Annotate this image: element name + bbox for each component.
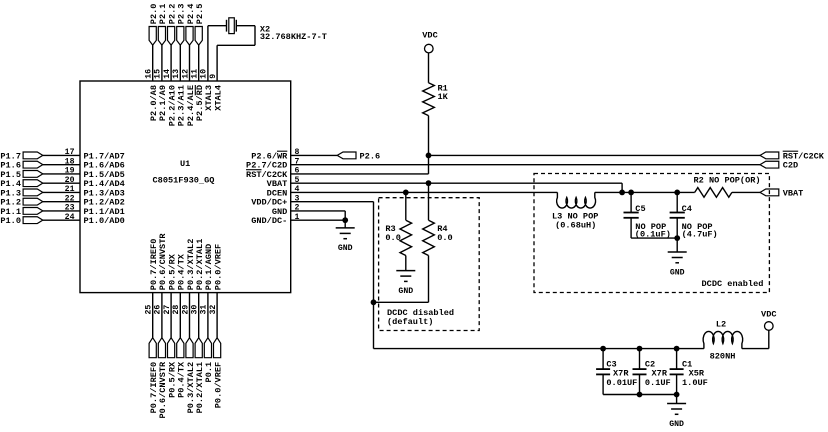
wire crystal right horizontal <box>236 25 255 27</box>
overline on RST of net label <box>783 150 798 152</box>
junction C4/C5 bottom <box>674 235 680 241</box>
svg-text:(0.68uH): (0.68uH) <box>555 220 596 230</box>
port flag P1.5 <box>23 171 43 178</box>
IC U1 C8051F930_GQ body <box>80 81 291 293</box>
capacitor C5 <box>624 212 639 214</box>
svg-text:(4.7uF): (4.7uF) <box>682 229 718 239</box>
port flag P0.2/XTAL1 <box>195 338 202 358</box>
wire C2 bottom lead <box>639 374 641 394</box>
svg-text:GND: GND <box>398 287 413 296</box>
svg-text:0.01UF: 0.01UF <box>606 378 637 388</box>
DCDC disabled region box <box>379 198 480 331</box>
port flag P2.4 <box>186 27 193 46</box>
wire pin 20 P1.4 <box>43 182 80 184</box>
wire R2 to VBAT flag <box>732 191 760 193</box>
junction GND pins <box>342 217 348 223</box>
svg-text:X7R: X7R <box>613 368 629 378</box>
wire RST to flag <box>429 154 761 156</box>
port flag VBAT <box>760 189 779 196</box>
ground below C4 <box>668 251 687 253</box>
wire pin 18 P1.6 <box>43 164 80 166</box>
svg-text:0.0: 0.0 <box>437 233 452 243</box>
wire pin 1 GND/DC- horizontal <box>291 219 346 221</box>
wire pin 7 P2.7/C2D <box>291 164 760 166</box>
capacitor C1 <box>670 368 684 370</box>
port flag P1.2 <box>23 198 43 205</box>
svg-text:VDC: VDC <box>761 309 776 319</box>
junction VBAT/R4 <box>426 180 432 186</box>
wire pin 3 VDD/DC+ horizontal <box>291 201 374 203</box>
svg-text:L2: L2 <box>716 320 726 330</box>
port flag RST/C2CK <box>760 152 779 159</box>
svg-text:P2.6: P2.6 <box>360 151 381 161</box>
port flag P0.3/XTAL2 <box>186 338 193 358</box>
wire pin 5 VBAT horizontal <box>291 182 622 184</box>
junction R1/RST <box>426 153 432 159</box>
power symbol VDC (top) <box>425 44 434 53</box>
port flag C2D <box>760 161 779 168</box>
port flag P1.1 <box>23 208 43 215</box>
inductor L2 <box>703 331 743 348</box>
wire pin 14 P2.2 <box>170 45 172 81</box>
wire GND junction to ground <box>344 220 346 228</box>
wire R1 to RST junction <box>428 116 430 156</box>
wire pin 32 P0.0/VREF <box>216 293 218 338</box>
svg-text:P1.0: P1.0 <box>0 216 21 226</box>
junction C4 top <box>674 190 680 196</box>
crystal X2 <box>226 20 228 32</box>
wire VBAT drop vertical <box>621 183 623 192</box>
wire VDC vertical (bottom) <box>768 330 770 348</box>
wire pin 6 RST horizontal <box>291 173 429 175</box>
wire VDD rail horizontal <box>374 348 704 350</box>
junction C5 top <box>628 190 634 196</box>
wire pin 21 P1.3 <box>43 191 80 193</box>
port flag P2.5 <box>195 27 202 46</box>
svg-text:1.0UF: 1.0UF <box>682 378 708 388</box>
wire pin 15 P2.1 <box>161 45 163 81</box>
wire pin 25 P0.7/IREF0 <box>152 293 154 338</box>
DCDC enabled region box <box>534 174 769 293</box>
svg-text:32.768KHZ-7-T: 32.768KHZ-7-T <box>260 32 327 42</box>
resistor R1 <box>423 83 435 116</box>
port flag P2.1 <box>158 27 165 46</box>
wire pin 22 P1.2 <box>43 201 80 203</box>
wire C5 top lead <box>630 192 632 212</box>
wire XTAL3 pin 10 vertical <box>207 26 209 81</box>
wire VDD/DC+ vertical <box>373 202 375 349</box>
port flag P1.3 <box>23 189 43 196</box>
svg-text:P2.5: P2.5 <box>195 4 205 25</box>
junction C2 top <box>637 346 643 352</box>
svg-text:R2 NO POP(OR): R2 NO POP(OR) <box>694 176 761 186</box>
junction C1 bottom <box>674 392 680 398</box>
svg-text:18: 18 <box>65 157 75 166</box>
wire pin 30 P0.2/XTAL1 <box>198 293 200 338</box>
wire pin 11 P2.5 <box>198 45 200 81</box>
wire C1 top lead <box>676 349 678 370</box>
svg-text:P0.0/VREF: P0.0/VREF <box>213 244 223 290</box>
junction DCEN/R3 <box>403 190 409 196</box>
overline on RD of pin 11 name <box>194 85 196 95</box>
wire pin 17 P1.7 <box>43 154 80 156</box>
svg-text:C5: C5 <box>635 204 645 214</box>
port flag P0.0/VREF <box>214 338 221 358</box>
wire capacitor bottom rail <box>603 394 677 396</box>
ground below R3 <box>396 270 415 272</box>
svg-text:P0.0/VREF: P0.0/VREF <box>213 362 223 408</box>
junction C3 top <box>600 346 606 352</box>
wire pin 13 P2.3 <box>179 45 181 81</box>
power symbol VDC (bottom) <box>765 322 774 331</box>
svg-text:P1.0/AD0: P1.0/AD0 <box>84 216 125 226</box>
svg-text:GND/DC-: GND/DC- <box>251 216 287 226</box>
port flag P1.0 <box>23 217 43 224</box>
wire R4 bottom horizontal <box>374 301 429 303</box>
port flag P2.6 <box>337 152 356 159</box>
port flag P1.7 <box>23 152 43 159</box>
svg-text:21: 21 <box>65 185 75 194</box>
wire pin 28 P0.4/TX <box>179 293 181 338</box>
svg-text:GND: GND <box>669 420 684 429</box>
wire R4 bottom vertical <box>428 256 430 303</box>
port flag P2.0 <box>149 27 156 46</box>
port flag P0.7/IREF0 <box>149 338 156 358</box>
port flag P0.1 <box>204 338 211 358</box>
wire pin 2 GND vertical <box>344 211 346 220</box>
resistor R4 <box>423 220 435 255</box>
wire to XTAL4 horizontal <box>217 44 255 46</box>
wire crystal right vertical <box>254 26 256 46</box>
port flag P0.4/TX <box>177 338 184 358</box>
svg-text:23: 23 <box>65 204 75 213</box>
wire pin 23 P1.1 <box>43 210 80 212</box>
wire RST vertical <box>428 155 430 174</box>
capacitor C3 <box>596 368 610 370</box>
svg-text:U1: U1 <box>180 159 190 169</box>
wire pin 19 P1.5 <box>43 173 80 175</box>
wire L3 to R2 <box>595 191 695 193</box>
capacitor C2 <box>633 368 647 370</box>
wire XTAL4 pin 9 vertical <box>216 45 218 81</box>
wire pin 27 P0.5/RX <box>170 293 172 338</box>
wire pin 8 P2.6 <box>291 154 338 156</box>
junction VBAT drop <box>619 190 625 196</box>
resistor R3 <box>400 220 412 255</box>
svg-text:VDC: VDC <box>422 30 437 40</box>
junction C2 bottom <box>637 392 643 398</box>
svg-text:22: 22 <box>65 194 75 203</box>
wire C2 top lead <box>639 349 641 370</box>
inductor L3 <box>557 192 596 208</box>
wire pin 24 P1.0 <box>43 219 80 221</box>
wire C4 top lead <box>676 192 678 212</box>
svg-text:17: 17 <box>65 148 75 157</box>
junction R4/VDD <box>371 299 377 305</box>
wire C4 to ground <box>676 238 678 252</box>
svg-text:1K: 1K <box>438 92 449 102</box>
wire pin 16 P2.0 <box>152 45 154 81</box>
wire C5 to C4 bottom <box>631 237 677 239</box>
resistor R2 <box>695 188 732 198</box>
svg-text:C4: C4 <box>682 204 692 214</box>
svg-text:24: 24 <box>65 213 75 222</box>
overline on RST of pin 6 name <box>246 169 261 171</box>
wire C5 bottom lead <box>630 218 632 238</box>
svg-text:0.1UF: 0.1UF <box>645 378 671 388</box>
svg-text:DCDC enabled: DCDC enabled <box>702 279 764 289</box>
capacitor C4 <box>670 212 685 214</box>
wire pin 2 GND horizontal <box>291 210 346 212</box>
svg-text:X7R: X7R <box>652 368 668 378</box>
svg-text:GND: GND <box>338 244 353 253</box>
wire pin 26 P0.6/CNVSTR <box>161 293 163 338</box>
wire pin 29 P0.3/XTAL2 <box>189 293 191 338</box>
wire VBAT to R4 <box>428 183 430 220</box>
port flag P1.6 <box>23 161 43 168</box>
svg-text:820NH: 820NH <box>710 352 736 362</box>
svg-text:RST/C2CK: RST/C2CK <box>783 151 825 161</box>
wire C4 bottom lead <box>676 218 678 238</box>
wire VDC to R1 <box>428 53 430 83</box>
ground below chip GND pins <box>336 227 355 229</box>
wire L2 to VDC <box>742 348 769 350</box>
wire DCEN to R3 <box>405 192 407 220</box>
svg-text:C8051F930_GQ: C8051F930_GQ <box>153 175 215 185</box>
svg-text:(default): (default) <box>387 317 433 327</box>
svg-text:GND: GND <box>670 268 685 277</box>
port flag P2.2 <box>168 27 175 46</box>
wire C3 top lead <box>602 349 604 370</box>
junction C1 top <box>674 346 680 352</box>
wire pin 4 DCEN horizontal <box>291 191 558 193</box>
wire pin 31 P0.1 <box>207 293 209 338</box>
port flag P0.6/CNVSTR <box>158 338 165 358</box>
svg-text:0.0: 0.0 <box>385 233 400 243</box>
port flag P0.5/RX <box>168 338 175 358</box>
svg-text:C2D: C2D <box>783 161 798 171</box>
ground below C1 <box>667 403 686 405</box>
port flag P1.4 <box>23 180 43 187</box>
wire R3 to ground <box>405 256 407 271</box>
wire XTAL3 to crystal left <box>208 25 227 27</box>
svg-text:XTAL4: XTAL4 <box>213 85 223 111</box>
svg-text:VBAT: VBAT <box>783 188 804 198</box>
wire C1 bottom lead <box>676 374 678 394</box>
wire C3 bottom lead <box>602 374 604 394</box>
svg-text:20: 20 <box>65 176 75 185</box>
svg-text:19: 19 <box>65 167 75 176</box>
wire C1 to ground <box>676 395 678 404</box>
port flag P2.3 <box>177 27 184 46</box>
svg-text:X5R: X5R <box>689 368 705 378</box>
wire pin 12 P2.4 <box>189 45 191 81</box>
overline on WR of pin 8 name <box>277 150 287 152</box>
